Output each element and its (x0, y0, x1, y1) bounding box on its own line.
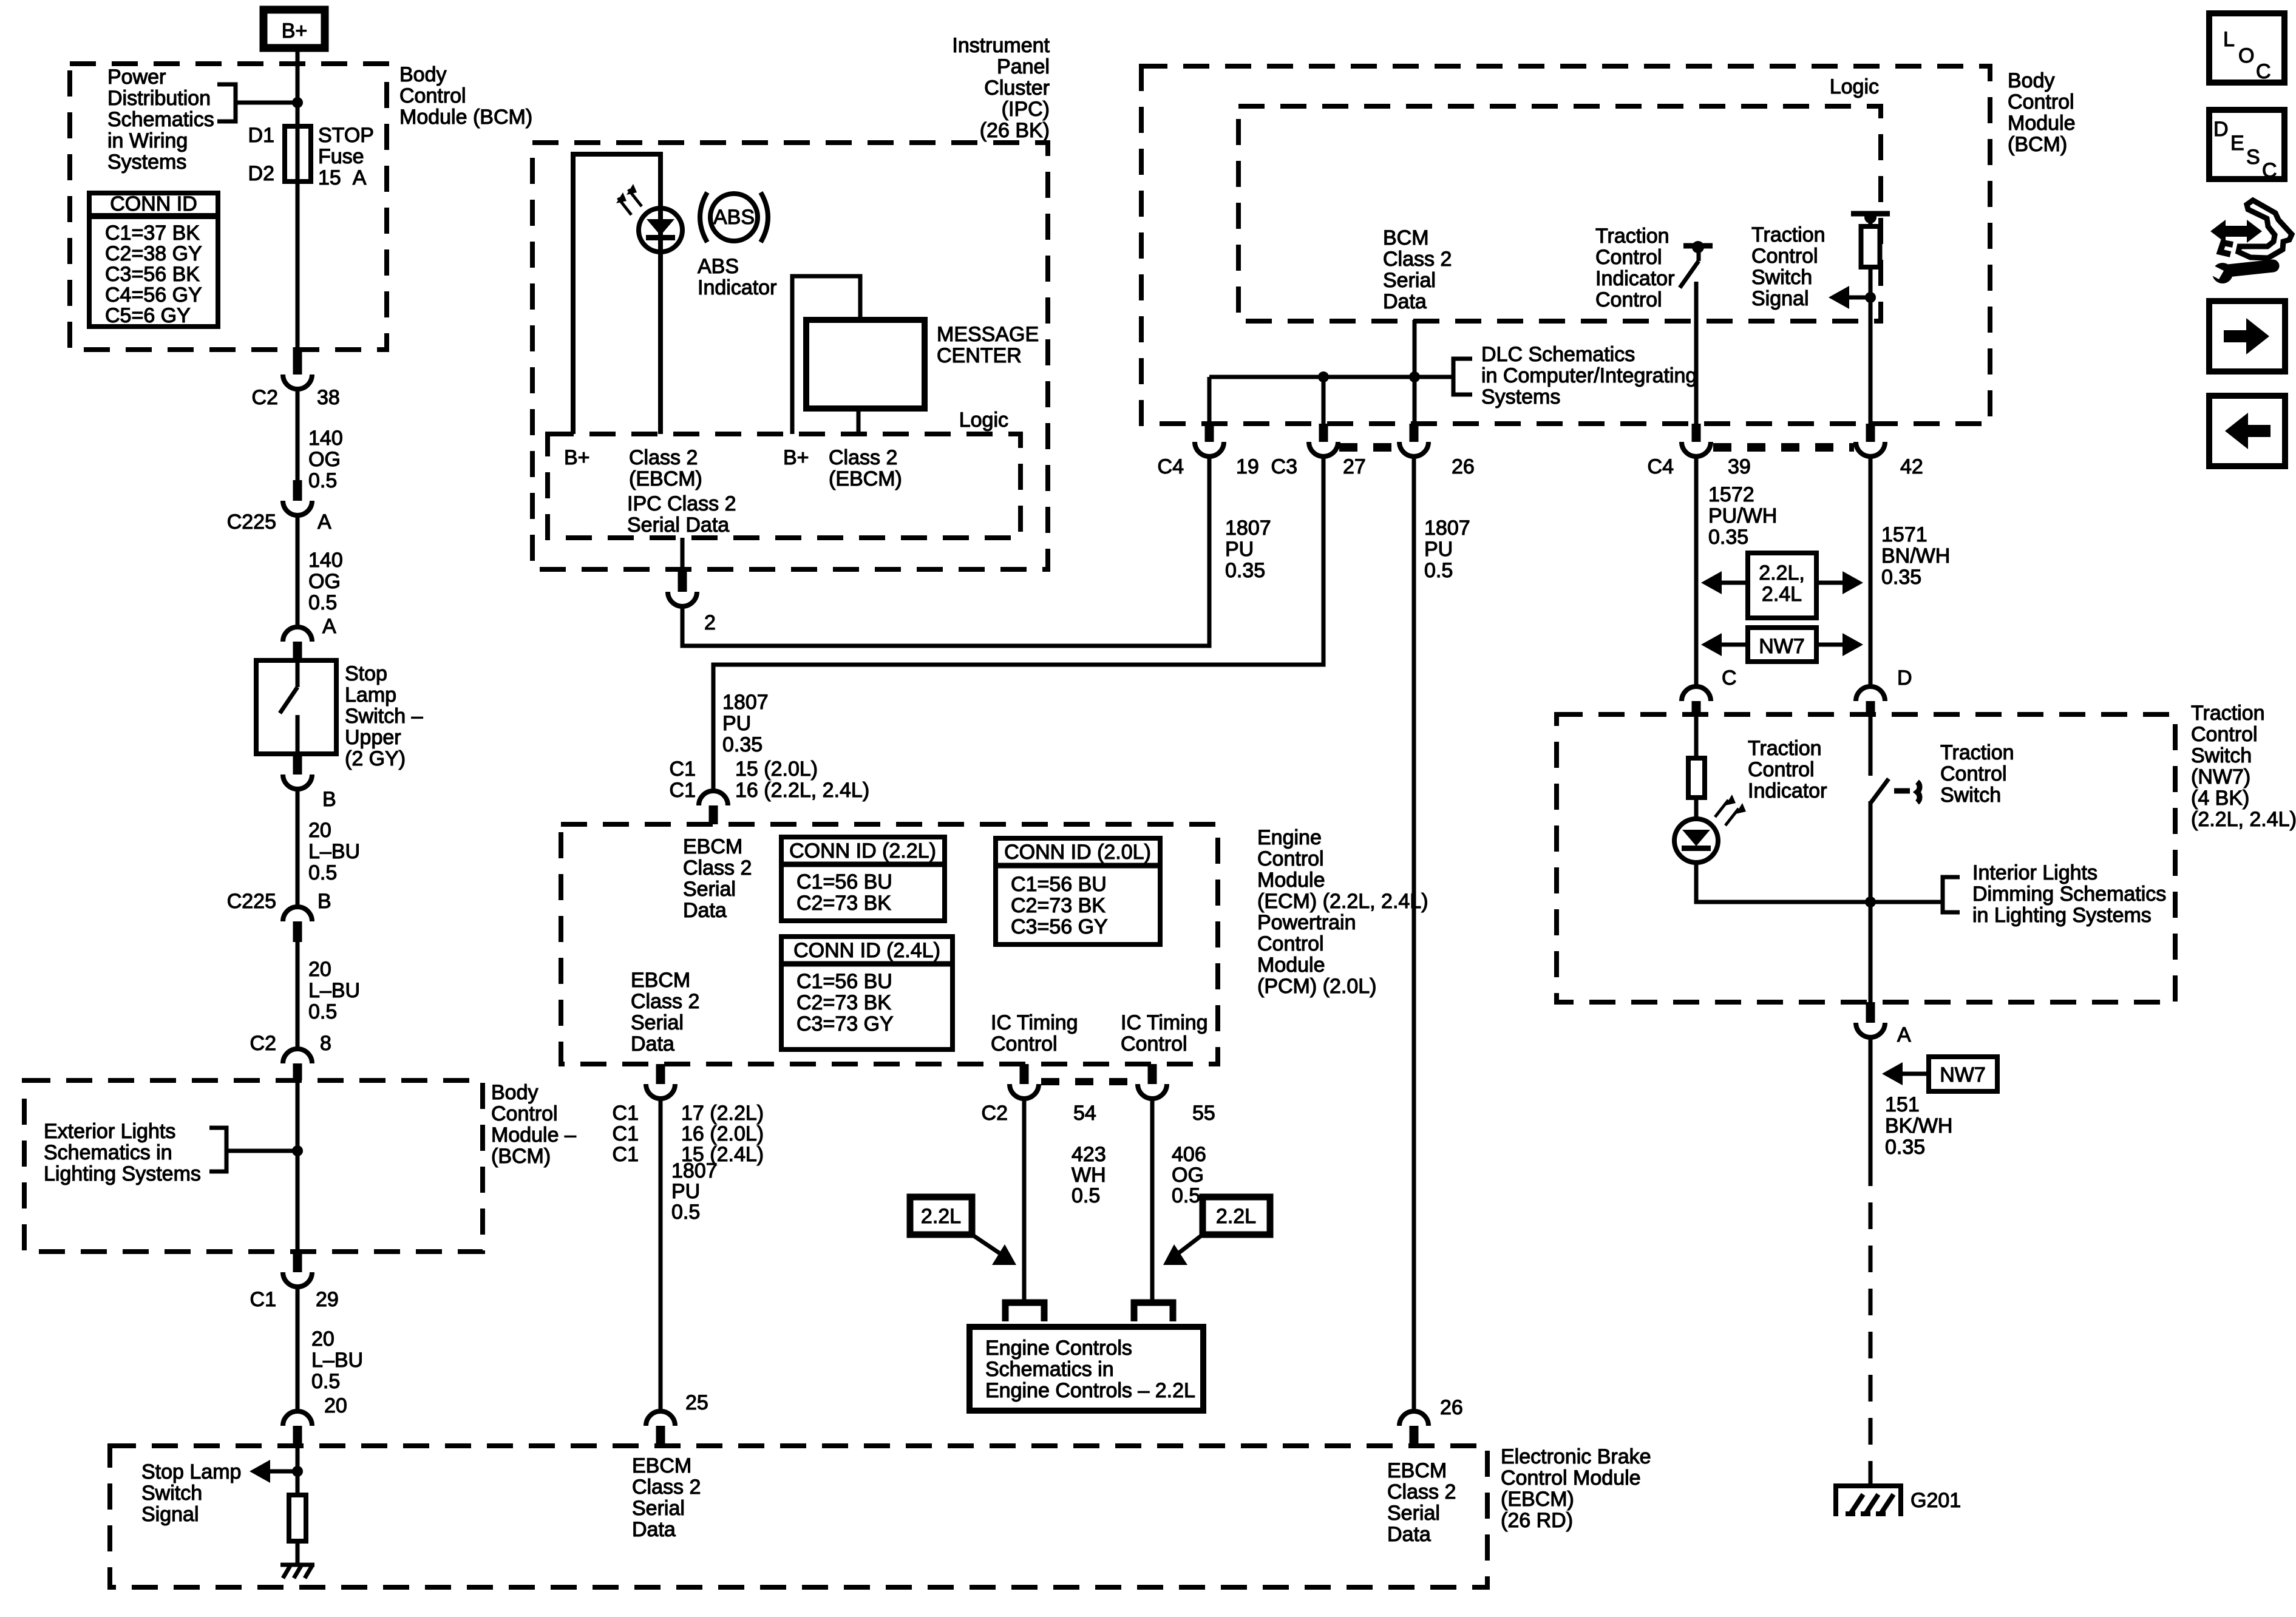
svg-text:A: A (318, 510, 331, 534)
connector ECM serial output C1 (646, 1064, 675, 1099)
svg-text:Module (BCM): Module (BCM) (399, 106, 532, 129)
svg-text:(BCM): (BCM) (491, 1145, 551, 1168)
svg-text:Body: Body (491, 1081, 538, 1104)
connector C225 pin A upper half (227, 480, 331, 534)
svg-text:Control: Control (491, 1102, 558, 1125)
node junction inside exterior lights box (292, 1145, 303, 1156)
bracket to power distribution reference (217, 84, 236, 121)
svg-text:EBCM: EBCM (632, 1454, 691, 1477)
svg-text:BN/WH: BN/WH (1881, 544, 1950, 568)
svg-text:(IPC): (IPC) (1002, 98, 1050, 121)
svg-text:Engine Controls – 2.2L: Engine Controls – 2.2L (985, 1379, 1195, 1402)
svg-text:C1: C1 (670, 779, 696, 802)
wire fuse to BCM box edge (296, 181, 300, 350)
bus BCM serial data (1209, 375, 1453, 379)
resistor internal EBCM pulldown (289, 1495, 306, 1565)
label 1807 PU 0.35 at ECM input (722, 691, 769, 756)
svg-text:C225: C225 (227, 890, 276, 913)
label Traction Control Indicator (1748, 737, 1827, 802)
svg-text:15 A: 15 A (318, 166, 367, 189)
svg-text:Control: Control (991, 1032, 1058, 1056)
wire label 20 L-BU 0.5 third (297, 1287, 363, 1411)
icon wrench (2209, 263, 2273, 283)
label Body Control Module - (BCM) (491, 1081, 576, 1168)
svg-text:Control: Control (1595, 246, 1662, 269)
svg-text:Control: Control (1751, 245, 1818, 268)
wire A to ground (1869, 1037, 1873, 1159)
svg-text:C1=56 BU: C1=56 BU (796, 970, 892, 993)
connector IC timing 1 C2 54 (982, 1064, 1096, 1125)
LED traction control indicator (1674, 795, 1746, 863)
fuse STOP 15A (285, 126, 311, 181)
svg-text:Traction: Traction (1595, 225, 1669, 248)
label Logic BCM (1830, 75, 1879, 98)
svg-text:20: 20 (308, 958, 331, 981)
wire label 140 OG 0.5 lower (297, 515, 343, 627)
LED ABS indicator lamp (616, 184, 682, 252)
svg-text:0.35: 0.35 (1225, 559, 1265, 582)
label ABS Indicator (698, 255, 776, 299)
svg-text:1807: 1807 (722, 691, 769, 714)
label Traction Control Switch NW7 4BK (2191, 702, 2296, 831)
svg-text:0.35: 0.35 (1881, 566, 1921, 589)
svg-text:Upper: Upper (345, 726, 401, 749)
svg-text:C4=56 GY: C4=56 GY (105, 283, 202, 307)
svg-text:Dimming Schematics: Dimming Schematics (1972, 883, 2166, 906)
svg-text:Serial: Serial (683, 878, 736, 901)
svg-text:Data: Data (631, 1032, 674, 1056)
wire label 140 OG 0.5 (297, 389, 343, 492)
wire through exterior lights box (296, 1080, 300, 1252)
callout NW7 (1701, 628, 1863, 662)
svg-text:(2.2L, 2.4L): (2.2L, 2.4L) (2191, 808, 2296, 831)
svg-text:1807: 1807 (671, 1159, 718, 1182)
svg-text:OG: OG (308, 448, 341, 471)
label STOP Fuse 15 A (318, 124, 374, 189)
connector ECM serial input (699, 791, 728, 824)
svg-text:Serial: Serial (631, 1011, 684, 1034)
svg-text:Distribution: Distribution (107, 87, 211, 110)
svg-text:29: 29 (316, 1288, 339, 1311)
svg-text:39: 39 (1728, 455, 1751, 478)
connector D traction switch (1856, 666, 1912, 714)
resistor traction indicator (1688, 714, 1705, 819)
svg-text:Serial: Serial (1383, 269, 1436, 292)
svg-text:C2=73 BK: C2=73 BK (796, 892, 891, 915)
svg-text:Systems: Systems (1481, 385, 1560, 408)
svg-text:CONN ID: CONN ID (110, 192, 197, 215)
terminal staple right (1134, 1303, 1173, 1321)
stop lamp switch contacts (280, 660, 297, 754)
svg-text:Engine Controls: Engine Controls (985, 1337, 1132, 1360)
svg-text:Class 2: Class 2 (631, 990, 699, 1013)
svg-text:Fuse: Fuse (318, 145, 364, 168)
label Traction Control Indicator Control (1595, 225, 1674, 311)
label EBCM Class 2 Serial Data lower (631, 969, 699, 1056)
label 423 WH 0.5 (1072, 1143, 1106, 1207)
wire LED to junction (1696, 863, 1943, 902)
svg-text:Traction: Traction (2191, 702, 2265, 725)
svg-text:(EBCM): (EBCM) (1501, 1488, 1574, 1511)
CONN ID 2.0L table (996, 838, 1160, 944)
svg-text:54: 54 (1073, 1102, 1096, 1125)
svg-text:MESSAGE: MESSAGE (937, 323, 1039, 346)
wire into EBCM stop lamp input (296, 1446, 300, 1495)
svg-text:0.5: 0.5 (1424, 559, 1453, 582)
svg-text:20: 20 (308, 819, 331, 842)
svg-text:0.5: 0.5 (1172, 1184, 1200, 1207)
pin labels C1 15 16 (670, 758, 870, 802)
connector C4 pin 39 (1648, 424, 1751, 478)
svg-text:Lighting Systems: Lighting Systems (44, 1162, 201, 1185)
svg-text:Control: Control (1940, 762, 2007, 785)
wire label 20 L-BU 0.5 (297, 789, 360, 907)
BCM power-distribution dashed box (70, 64, 387, 350)
wire IPC pin2 to BCM C4 pin19 (682, 456, 1209, 646)
connector C2 pin 38 (252, 347, 340, 409)
BCM exterior lights dashed box (24, 1080, 483, 1252)
svg-text:(26 BK): (26 BK) (980, 119, 1050, 142)
svg-text:Control: Control (1121, 1032, 1187, 1056)
stop lamp switch box (256, 660, 336, 754)
icon LOC box (2209, 13, 2284, 83)
svg-text:CONN ID (2.2L): CONN ID (2.2L) (789, 839, 936, 863)
svg-text:Traction: Traction (1940, 741, 2014, 764)
svg-text:0.5: 0.5 (308, 469, 337, 492)
label Stop Lamp Switch Signal (141, 1460, 241, 1526)
svg-text:C2: C2 (250, 1032, 276, 1055)
label DLC Schematics in Computer Integrating Systems (1481, 343, 1697, 408)
label D1 D2 (248, 124, 274, 185)
svg-text:A: A (1897, 1023, 1911, 1046)
svg-text:42: 42 (1900, 455, 1923, 478)
svg-text:Signal: Signal (141, 1503, 199, 1526)
svg-text:38: 38 (317, 386, 340, 409)
svg-text:20: 20 (311, 1327, 335, 1351)
pin labels IPC logic (564, 446, 902, 537)
svg-text:C2=38 GY: C2=38 GY (105, 242, 202, 265)
svg-text:in Wiring: in Wiring (107, 129, 188, 152)
svg-text:B+: B+ (783, 446, 809, 469)
switch traction control indicator control (1680, 241, 1713, 424)
svg-text:2.4L: 2.4L (1762, 583, 1802, 606)
wire bracket to stop lamp node (226, 1149, 297, 1153)
svg-text:0.5: 0.5 (311, 1370, 340, 1393)
svg-text:Schematics in: Schematics in (985, 1358, 1114, 1381)
svg-text:Signal: Signal (1751, 287, 1809, 310)
svg-text:C1: C1 (613, 1102, 639, 1125)
svg-text:20: 20 (324, 1394, 347, 1417)
svg-text:D1: D1 (248, 124, 274, 147)
svg-text:D2: D2 (248, 162, 274, 185)
wire 42 to connector D (1869, 456, 1873, 686)
ground G201 (1836, 1486, 1961, 1516)
svg-text:140: 140 (308, 549, 343, 572)
svg-text:16 (2.2L, 2.4L): 16 (2.2L, 2.4L) (735, 779, 869, 802)
label EBCM Class 2 Serial Data bottom left (632, 1454, 701, 1541)
svg-text:Schematics: Schematics (107, 108, 214, 131)
wire bus to C3 27 (1322, 377, 1326, 424)
svg-text:CONN ID (2.4L): CONN ID (2.4L) (793, 939, 940, 962)
svg-text:OG: OG (308, 570, 341, 593)
svg-text:Switch: Switch (1751, 266, 1812, 289)
svg-text:EBCM: EBCM (683, 835, 742, 858)
svg-text:Panel: Panel (997, 55, 1050, 78)
svg-text:0.5: 0.5 (1072, 1184, 1100, 1207)
node junction at B+ feed (292, 97, 303, 108)
svg-text:Switch: Switch (2191, 744, 2252, 767)
label 406 OG 0.5 (1172, 1143, 1206, 1207)
IPC instrument panel cluster dashed box (532, 143, 1048, 569)
svg-text:PU: PU (722, 712, 751, 735)
svg-text:0.5: 0.5 (308, 591, 337, 614)
label Body Control Module (BCM) (399, 63, 532, 129)
svg-text:1807: 1807 (1225, 517, 1271, 540)
svg-text:C2: C2 (982, 1102, 1008, 1125)
label 1571 BN/WH 0.35 (1881, 523, 1950, 589)
svg-text:Logic: Logic (959, 408, 1008, 432)
label Instrument Panel Cluster (IPC) (26 BK) (952, 34, 1050, 142)
svg-text:BCM: BCM (1383, 226, 1429, 249)
svg-text:Switch –: Switch – (345, 705, 423, 728)
wire message center to logic (857, 408, 861, 434)
svg-text:IPC Class 2: IPC Class 2 (627, 492, 736, 515)
IPC internal supply rectangle (573, 154, 661, 434)
svg-text:C3=73 GY: C3=73 GY (796, 1012, 894, 1036)
svg-text:C5=6 GY: C5=6 GY (105, 304, 191, 327)
CONN ID table (89, 192, 218, 327)
svg-text:L–BU: L–BU (308, 979, 360, 1002)
svg-text:2.2L: 2.2L (1216, 1205, 1256, 1228)
linkage dashes traction switch (1894, 782, 1920, 802)
svg-text:C225: C225 (227, 510, 276, 534)
svg-text:1572: 1572 (1708, 483, 1754, 506)
wire BCM C3 pin27 to ECM (713, 456, 1323, 791)
label Traction Control Switch (1940, 741, 2014, 807)
svg-text:C2: C2 (252, 386, 278, 409)
svg-text:C2=73 BK: C2=73 BK (796, 991, 891, 1014)
svg-text:Powertrain: Powertrain (1257, 911, 1356, 934)
label Exterior Lights Schematics in Lighting Systems (44, 1120, 201, 1185)
svg-text:Module: Module (2008, 112, 2076, 135)
svg-text:C3=56 BK: C3=56 BK (105, 263, 200, 286)
svg-text:L: L (2223, 28, 2235, 51)
wire 39 to connector C (1694, 456, 1699, 686)
svg-text:0.35: 0.35 (1885, 1136, 1925, 1159)
MESSAGE CENTER box (806, 320, 925, 408)
svg-text:Stop: Stop (345, 662, 387, 685)
terminal staple left (1005, 1303, 1044, 1321)
connector C2 pin 8 (250, 1032, 331, 1080)
svg-text:Class 2: Class 2 (683, 856, 752, 880)
svg-text:EBCM: EBCM (631, 969, 690, 992)
svg-text:Instrument: Instrument (952, 34, 1050, 57)
svg-text:(2 GY): (2 GY) (345, 747, 406, 770)
svg-text:Control: Control (2008, 90, 2074, 114)
wire label 20 L-BU 0.5 second (297, 942, 360, 1049)
svg-text:C1: C1 (670, 758, 696, 781)
svg-text:Lamp: Lamp (345, 683, 396, 707)
svg-text:C1=56 BU: C1=56 BU (1011, 873, 1107, 896)
svg-text:19: 19 (1236, 455, 1259, 478)
switch traction control contact (1870, 714, 1889, 902)
svg-text:Control: Control (1748, 758, 1815, 781)
svg-text:Serial: Serial (632, 1497, 685, 1520)
label Engine Control Module ECM PCM (1257, 826, 1428, 998)
svg-text:NW7: NW7 (1759, 635, 1805, 658)
svg-text:Indicator: Indicator (1595, 267, 1674, 290)
wire 26 to EBCM pin 26 (1412, 456, 1416, 1411)
IPC logic dashed box (548, 434, 1021, 538)
traction control switch dashed box (1557, 714, 2175, 1002)
svg-text:C1=37 BK: C1=37 BK (105, 222, 200, 245)
svg-text:Control: Control (2191, 723, 2258, 746)
svg-text:406: 406 (1172, 1143, 1206, 1166)
node junction stop lamp signal (292, 1466, 303, 1477)
connector pin 26 (1399, 424, 1475, 478)
node junction traction switch output (1865, 897, 1876, 907)
svg-text:Traction: Traction (1748, 737, 1822, 760)
svg-text:(BCM): (BCM) (2008, 133, 2067, 156)
pin labels C1 17 16 15 (613, 1102, 764, 1166)
svg-text:1571: 1571 (1881, 523, 1927, 546)
svg-text:Stop Lamp: Stop Lamp (141, 1460, 241, 1483)
svg-text:(NW7): (NW7) (2191, 765, 2250, 788)
arrow traction switch signal (1829, 286, 1876, 309)
svg-text:0.35: 0.35 (1708, 526, 1748, 549)
label Body Control Module (BCM) right (2008, 69, 2076, 156)
ground internal EBCM (280, 1565, 314, 1578)
svg-text:Body: Body (399, 63, 447, 86)
EBCM bottom dashed box (110, 1446, 1487, 1587)
callout 2.2L left (910, 1197, 1016, 1265)
connector C3 pin 27 (1271, 424, 1366, 478)
svg-text:8: 8 (320, 1032, 331, 1055)
callout NW7 arrow (1882, 1057, 1997, 1091)
svg-text:Module –: Module – (491, 1124, 576, 1147)
svg-text:C2=73 BK: C2=73 BK (1011, 894, 1106, 917)
svg-text:Class 2: Class 2 (1383, 248, 1452, 271)
dashed link IC timing connectors (1041, 1078, 1135, 1085)
svg-text:Class 2: Class 2 (629, 446, 698, 469)
svg-text:Interior Lights: Interior Lights (1972, 861, 2097, 884)
label Electronic Brake Control Module (1501, 1445, 1651, 1532)
svg-text:Data: Data (683, 899, 727, 922)
svg-text:B+: B+ (564, 446, 590, 469)
svg-text:17 (2.2L): 17 (2.2L) (681, 1102, 764, 1125)
svg-text:Switch: Switch (141, 1482, 202, 1505)
label Interior Lights Dimming Schematics (1972, 861, 2166, 927)
svg-text:(ECM) (2.2L, 2.4L): (ECM) (2.2L, 2.4L) (1257, 890, 1428, 913)
label MESSAGE CENTER (937, 323, 1039, 367)
svg-text:Electronic Brake: Electronic Brake (1501, 1445, 1651, 1468)
svg-text:Engine: Engine (1257, 826, 1322, 849)
dashed link 39 to 42 (1713, 443, 1854, 452)
svg-text:D: D (2213, 118, 2229, 141)
svg-text:Schematics in: Schematics in (44, 1141, 172, 1164)
svg-text:C: C (1722, 666, 1737, 690)
svg-text:Switch: Switch (1940, 784, 2001, 807)
label Stop Lamp Switch Upper (2 GY) (345, 662, 423, 770)
svg-text:Indicator: Indicator (1748, 779, 1827, 802)
svg-text:Data: Data (1387, 1523, 1431, 1546)
arrow stop lamp switch signal (250, 1460, 293, 1483)
svg-text:151: 151 (1885, 1093, 1920, 1116)
label Logic IPC (959, 408, 1008, 432)
svg-text:in Computer/Integrating: in Computer/Integrating (1481, 364, 1697, 387)
bracket exterior lights reference (209, 1128, 226, 1171)
svg-text:IC Timing: IC Timing (991, 1011, 1078, 1034)
label 151 BK/WH 0.35 (1885, 1093, 1952, 1159)
svg-text:C1: C1 (613, 1122, 639, 1145)
ABS indicator symbol (700, 192, 768, 242)
connector IPC pin 2 (668, 538, 716, 634)
BCM body control module dashed box top right (1141, 66, 1990, 424)
svg-text:D: D (1897, 666, 1912, 690)
resistor traction switch pull-up (1851, 211, 1890, 424)
svg-text:DLC Schematics: DLC Schematics (1481, 343, 1635, 366)
label 1572 PU/WH 0.35 (1708, 483, 1777, 549)
connector C4 pin 19 (1158, 424, 1259, 478)
svg-text:WH: WH (1072, 1164, 1106, 1187)
connector EBCM pin 25 (646, 1391, 708, 1446)
svg-text:C4: C4 (1158, 455, 1184, 478)
label Power Distribution Schematics in Wiring Systems (107, 66, 214, 174)
terminal 20 into EBCM (283, 1394, 347, 1446)
label EBCM Class 2 Serial Data upper (683, 835, 752, 922)
wire bracket to node (236, 101, 297, 105)
svg-text:B: B (322, 788, 336, 811)
connector EBCM pin 26 (1399, 1396, 1463, 1446)
svg-text:in Lighting Systems: in Lighting Systems (1972, 904, 2152, 927)
dashed link 27 to 26 (1339, 443, 1400, 452)
node junction bus at serial (1409, 371, 1420, 382)
svg-text:Exterior Lights: Exterior Lights (44, 1120, 175, 1143)
svg-text:NW7: NW7 (1940, 1063, 1986, 1086)
svg-text:C1: C1 (250, 1288, 276, 1311)
svg-text:(EBCM): (EBCM) (629, 467, 702, 490)
svg-text:Control: Control (1257, 932, 1324, 955)
svg-text:Module: Module (1257, 869, 1325, 892)
wire B+ to fuse (296, 52, 300, 126)
svg-text:2.2L,: 2.2L, (1759, 561, 1805, 585)
CONN ID 2.2L table (781, 837, 945, 921)
svg-text:Data: Data (1383, 290, 1427, 313)
svg-text:PU: PU (1225, 538, 1254, 561)
svg-text:(PCM) (2.0L): (PCM) (2.0L) (1257, 975, 1376, 998)
svg-text:ABS: ABS (713, 206, 755, 229)
connector pin 42 (1856, 424, 1923, 478)
Engine Controls Schematics box (970, 1327, 1203, 1411)
svg-text:Power: Power (107, 66, 166, 89)
connector IC timing 2 55 (1138, 1064, 1215, 1125)
svg-text:Serial Data: Serial Data (627, 514, 729, 537)
wire bus to C4 19 (1207, 377, 1212, 424)
svg-text:0.35: 0.35 (722, 733, 763, 756)
connector C traction switch (1682, 666, 1737, 714)
svg-text:PU/WH: PU/WH (1708, 504, 1777, 527)
svg-text:STOP: STOP (318, 124, 374, 147)
svg-text:140: 140 (308, 427, 343, 450)
wire BCM serial data to bus (1413, 320, 1417, 424)
svg-text:G201: G201 (1911, 1489, 1961, 1512)
svg-text:Class 2: Class 2 (829, 446, 897, 469)
svg-text:IC Timing: IC Timing (1121, 1011, 1208, 1034)
svg-text:Serial: Serial (1387, 1502, 1440, 1525)
ECM PCM dashed box (561, 824, 1218, 1064)
svg-text:C3=56 GY: C3=56 GY (1011, 915, 1108, 938)
label 1807 PU 0.5 left (671, 1159, 718, 1224)
